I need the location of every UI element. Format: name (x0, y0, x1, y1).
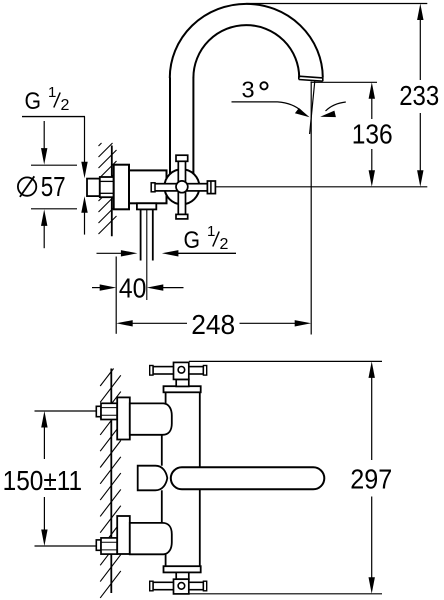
dimension Ø57 arrows (41, 121, 47, 248)
upper handle boss (174, 362, 189, 379)
dimension 248 line/arrows (116, 320, 311, 326)
body tube edges (162, 392, 200, 566)
lower escutcheon flange (117, 516, 130, 554)
svg-text:2: 2 (61, 97, 70, 114)
dimension Ø57 extension lines (31, 165, 77, 209)
svg-text:G: G (184, 227, 201, 254)
handle top cap (176, 155, 188, 161)
leader arrow G1/2 upper (points at stub top) (81, 117, 87, 179)
outlet height extension line (311, 81, 378, 83)
3deg leader line (232, 101, 278, 103)
label G 1/2 (wall union thread) (22, 84, 85, 117)
wall hatching (side view) (99, 143, 117, 234)
lower hex nut (101, 538, 117, 554)
svg-text:136: 136 (352, 119, 393, 150)
lower handle boss (174, 579, 189, 594)
spout (top view capsule) (171, 467, 325, 489)
lower handle crossbar (153, 582, 203, 589)
handle vertical arm (178, 161, 185, 214)
outlet thread arrows (97, 250, 179, 256)
top extension line (spout apex) (246, 3, 427, 5)
dimension 150 line/arrows (41, 411, 47, 546)
lower handle screw (178, 583, 185, 590)
handle hub circle (164, 169, 199, 204)
wall line (side view) (111, 146, 113, 237)
escutcheon disc (114, 165, 129, 210)
upper inlet stub (96, 406, 101, 416)
spout outlet face (299, 76, 323, 81)
handle bottom cap (176, 214, 188, 219)
faucet body cylinder (129, 170, 167, 203)
spout axis plumb line (310, 82, 312, 335)
handle left arm cap (151, 183, 155, 192)
handle horizontal arm (153, 184, 208, 191)
wall line (top view) (110, 369, 112, 594)
upper hex nut (101, 403, 117, 419)
upper handle crossbar (153, 367, 203, 374)
upper crossbar right cap (203, 366, 206, 376)
lower S-union cone (130, 523, 172, 554)
dimension 40 extension line (115, 257, 117, 334)
body centerline (height reference) (216, 186, 428, 188)
3deg left arc with arrow (278, 102, 303, 112)
svg-text:3: 3 (242, 76, 255, 102)
outlet flange (137, 203, 156, 209)
dimension 297 extension lines (189, 361, 382, 593)
dimension 136 lines/arrows (369, 82, 375, 187)
lower handle stem (176, 572, 189, 579)
upper S-union cone (130, 403, 172, 434)
svg-text:1: 1 (207, 223, 215, 240)
svg-text:57: 57 (41, 171, 66, 202)
lower crossbar left cap (150, 581, 153, 591)
spout bow inner arc (193, 25, 299, 78)
upper escutcheon flange (117, 397, 130, 439)
lower inlet stub (96, 540, 101, 550)
svg-text:233: 233 (399, 80, 439, 111)
dimension 40 arrows (92, 284, 184, 290)
body tube bottom cap plate (164, 566, 201, 572)
upper handle screw (178, 367, 185, 374)
center outlet block (138, 466, 168, 491)
spout bow outer arc (170, 4, 323, 78)
leader arrow G1/2 lower (points at stub bottom) (81, 196, 87, 234)
wall hatching (top view) (100, 369, 121, 598)
dimension 297 line/arrows (369, 361, 375, 593)
svg-text:40: 40 (119, 272, 147, 303)
label G 1/2 (outlet thread) (174, 223, 236, 254)
upper crossbar left cap (150, 366, 153, 376)
upper handle stem (176, 379, 189, 386)
handle right knob (207, 181, 215, 194)
outlet pipe axis line (146, 209, 148, 300)
svg-text:150±11: 150±11 (3, 465, 83, 496)
svg-text:248: 248 (191, 309, 235, 340)
outlet down pipe (141, 209, 153, 260)
hex nut (wall union) (100, 177, 114, 197)
dimension 150 extension lines (35, 411, 100, 546)
svg-text:297: 297 (350, 464, 392, 495)
svg-text:1: 1 (48, 84, 56, 101)
dimension 233 lines/arrows (417, 4, 423, 187)
handle center screw (176, 181, 188, 193)
3deg right arc with arrow (326, 102, 346, 111)
body tube top cap plate (164, 386, 201, 392)
lower crossbar right cap (203, 581, 206, 591)
spout riser pipe (170, 78, 193, 177)
spout axis 3deg slanted line (310, 81, 315, 134)
inlet stub (threaded pipe) (87, 179, 100, 197)
svg-text:G: G (25, 88, 42, 115)
dimension text Ø57 (18, 171, 66, 202)
svg-text:2: 2 (220, 236, 229, 253)
